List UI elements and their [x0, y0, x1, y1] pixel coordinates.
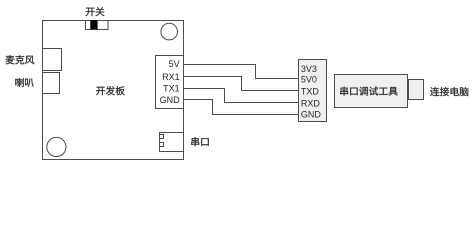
speaker SPK1 block	[43, 73, 60, 94]
serial connector J2 pin 2	[160, 143, 164, 147]
serial debug tool U2 body 串口调试工具	[335, 75, 408, 108]
svg-text:RXD: RXD	[301, 98, 321, 108]
svg-text:TXD: TXD	[301, 87, 320, 97]
switch SW1 body	[86, 21, 109, 30]
svg-text:5V: 5V	[169, 59, 180, 69]
wire GND to GND	[184, 100, 299, 115]
svg-text:GND: GND	[301, 110, 322, 120]
label 串口 (serial port)	[191, 137, 208, 146]
serial connector J2 body	[160, 133, 184, 152]
label 喇叭 (speaker)	[15, 78, 34, 87]
label 开关 (switch)	[86, 7, 105, 16]
label 连接电脑 (connect to PC)	[430, 87, 468, 96]
serial connector J2 pin 1	[160, 135, 164, 139]
pin header J3 box on serial tool	[299, 60, 327, 122]
mounting hole circle bottom-left	[47, 137, 66, 156]
wire 5V to 5V0	[184, 65, 299, 79]
label 麦克风 (microphone)	[6, 55, 35, 64]
microphone MIC1 block	[43, 49, 62, 71]
svg-text:5V0: 5V0	[301, 75, 317, 85]
pin header J1 box on dev board	[156, 56, 184, 109]
dev board outline U1 开发板	[43, 21, 184, 160]
svg-text:3V3: 3V3	[301, 64, 317, 74]
svg-text:RX1: RX1	[162, 72, 180, 82]
label 开发板 (dev board)	[96, 86, 125, 95]
label 串口调试工具 (serial debug tool)	[340, 87, 397, 96]
wire RX1 to TXD	[184, 77, 299, 91]
svg-text:GND: GND	[160, 95, 181, 105]
svg-text:TX1: TX1	[163, 84, 180, 94]
USB plug P1 of serial tool	[409, 80, 424, 100]
wire TX1 to RXD	[184, 89, 299, 103]
mounting hole circle top-right	[161, 23, 178, 40]
switch SW1 knob	[90, 20, 97, 29]
